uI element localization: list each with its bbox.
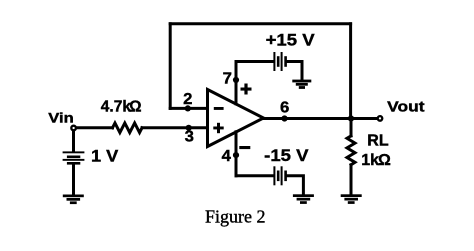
- svg-text:4: 4: [222, 148, 231, 165]
- node pin3 dot: [186, 125, 192, 131]
- node pin6 dot: [281, 115, 287, 121]
- battery B1 1V plates: [63, 151, 85, 164]
- node Vin terminal open circle: [71, 126, 76, 131]
- ground bottom right (-15V): [293, 194, 314, 204]
- wire pin4 vertical: [235, 132, 238, 176]
- svg-text:Vout: Vout: [387, 99, 424, 116]
- resistor R1 4.7k zigzag: [113, 123, 143, 133]
- node pin2 dot: [185, 105, 191, 111]
- wire resistor to pin3: [142, 126, 206, 129]
- op-amp U1 triangle: [208, 90, 264, 147]
- supply plus sign near pin7: [241, 84, 252, 95]
- svg-text:RL: RL: [367, 133, 389, 150]
- svg-text:7: 7: [223, 70, 232, 87]
- svg-text:Figure 2: Figure 2: [205, 207, 266, 227]
- node pin7 dot: [233, 77, 239, 83]
- battery B3 -15V plates: [273, 166, 287, 185]
- wire pin7 vertical: [235, 62, 238, 104]
- ground below RL: [341, 194, 362, 204]
- svg-text:4.7kΩ: 4.7kΩ: [101, 98, 142, 115]
- svg-text:+15 V: +15 V: [266, 30, 316, 49]
- op-amp inverting input minus sign: [214, 107, 224, 110]
- svg-text:-15 V: -15 V: [264, 146, 309, 165]
- supply minus sign near pin4: [239, 146, 250, 149]
- ground below 1V battery: [63, 195, 84, 205]
- wire RL to ground: [350, 165, 353, 195]
- svg-text:6: 6: [280, 99, 289, 116]
- svg-text:1kΩ: 1kΩ: [361, 152, 391, 169]
- wire Vin to pin3 left segment: [77, 126, 113, 129]
- svg-text:2: 2: [183, 91, 192, 108]
- op-amp non-inverting input plus sign: [213, 123, 223, 133]
- wire output from op-amp to Vout: [265, 117, 377, 120]
- wire battery to ground left: [72, 164, 75, 195]
- resistor RL zigzag: [347, 136, 355, 165]
- wire pin4 to -15V battery: [236, 174, 274, 177]
- ground top right (+15V): [292, 80, 311, 89]
- battery B2 +15V plates: [273, 52, 287, 71]
- wire pin2 horizontal: [170, 107, 206, 110]
- wire Vin down to battery: [72, 131, 75, 151]
- wire junction down to RL: [350, 119, 353, 136]
- svg-text:1 V: 1 V: [91, 146, 119, 165]
- wire -15V battery to ground corner: [287, 176, 304, 195]
- wire feedback left vertical: [169, 24, 172, 109]
- wire feedback right vertical: [349, 24, 352, 119]
- svg-text:Vin: Vin: [48, 109, 74, 125]
- node Vout terminal open circle: [378, 116, 383, 121]
- wire +15V battery to ground corner: [287, 62, 302, 80]
- wire pin7 to +15V battery: [236, 60, 274, 63]
- wire feedback top horizontal: [170, 22, 350, 25]
- node pin4 dot: [233, 152, 239, 158]
- node output junction dot: [348, 115, 354, 121]
- svg-text:3: 3: [185, 129, 194, 146]
